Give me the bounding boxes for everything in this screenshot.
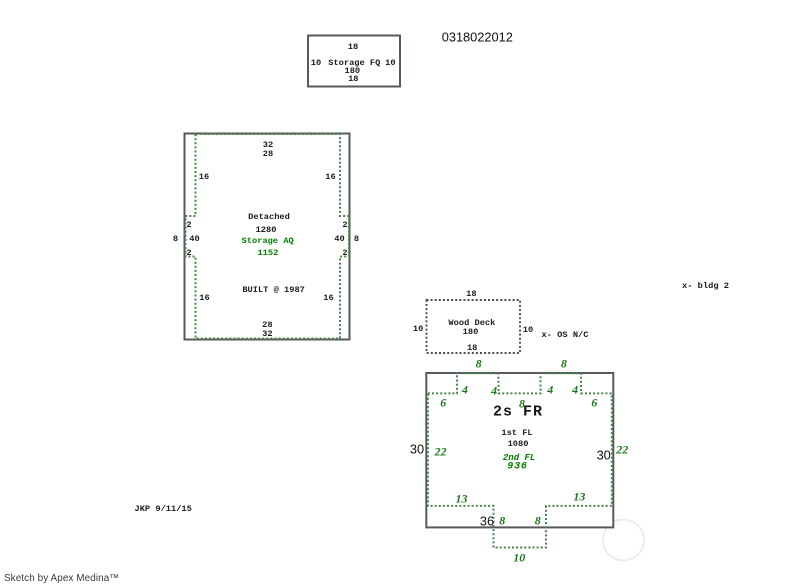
detached dim: 16 upper-right bbox=[325, 172, 335, 182]
deck dim: 10 left bbox=[413, 324, 423, 334]
area polygon: 2nd FL (green dotted with top tabs and bottom protrusion) bbox=[428, 373, 612, 547]
shed name: Storage FQ bbox=[328, 58, 380, 68]
deck name: Wood Deck bbox=[448, 318, 495, 328]
main dim: 4 tab side 3 bbox=[547, 383, 553, 398]
note: x- bldg 2 bbox=[682, 281, 729, 291]
detached dim: 8 outside left bbox=[173, 234, 178, 244]
deck dim: 10 right bbox=[523, 325, 533, 335]
main dim: 30 left bbox=[410, 441, 424, 456]
main dim: 4 tab side 4 bbox=[572, 383, 578, 398]
deck dim: 18 bottom bbox=[467, 343, 477, 353]
main dim: 30 right bbox=[597, 448, 611, 463]
watermark circle bbox=[603, 520, 644, 561]
detached dim: 2 upper-left notch bbox=[186, 220, 191, 230]
main area: 1080 bbox=[508, 439, 529, 449]
detached dim: 2 lower-left notch bbox=[186, 248, 191, 258]
main dim: 6 right bbox=[591, 395, 597, 410]
parcel number label bbox=[442, 30, 513, 45]
area polygon: Storage AQ (green dotted with side notches) bbox=[186, 134, 350, 339]
main dim: 8 top-left tab bbox=[476, 357, 482, 372]
detached dim: 28 top bbox=[263, 149, 273, 159]
detached area: 1280 bbox=[256, 225, 277, 235]
deck outline: Wood Deck (gray dotted) bbox=[427, 300, 521, 353]
main dim: 8 middle bbox=[519, 396, 525, 411]
detached dim: 16 lower-right bbox=[323, 293, 333, 303]
storage name: Storage AQ bbox=[242, 236, 294, 246]
detached dim: 8 outside right bbox=[354, 234, 359, 244]
main dim: 13 left bbox=[456, 491, 468, 506]
main dim: 4 tab side 2 bbox=[491, 383, 497, 398]
main area: 936 bbox=[507, 462, 527, 473]
shed area: 180 bbox=[344, 66, 360, 76]
main dim: 13 right bbox=[573, 489, 585, 504]
detached dim: 32 top bbox=[263, 140, 273, 150]
shed dim: 18 bottom bbox=[348, 74, 358, 84]
building outline: Storage FQ shed bbox=[308, 36, 400, 87]
shed dim: 10 right bbox=[385, 58, 395, 68]
main dim: 8 protrusion left bbox=[499, 513, 505, 528]
detached note: BUILT @ 1987 bbox=[242, 285, 305, 295]
detached dim: 40 left bbox=[189, 234, 199, 244]
deck dim: 18 top bbox=[466, 289, 476, 299]
detached dim: 16 lower-left bbox=[199, 293, 209, 303]
detached dim: 16 upper-left bbox=[199, 172, 209, 182]
building outline: Detached garage (gray solid) bbox=[185, 134, 350, 340]
main dim: 4 tab side 1 bbox=[462, 383, 468, 398]
main label: 2nd FL bbox=[503, 453, 535, 463]
main dim: 22 left bbox=[435, 444, 447, 459]
main dim: 36 bottom bbox=[480, 513, 494, 528]
appraiser initials and date bbox=[135, 504, 192, 514]
main dim: 22 right bbox=[616, 442, 628, 457]
main dim: 8 protrusion right bbox=[535, 513, 541, 528]
footer: Sketch by Apex Medina bbox=[4, 573, 119, 584]
detached dim: 2 upper-right notch bbox=[342, 220, 347, 230]
detached dim: 32 bottom bbox=[262, 329, 272, 339]
main label: 2s FR bbox=[493, 403, 543, 420]
detached dim: 2 lower-right notch bbox=[342, 248, 347, 258]
detached dim: 28 bottom bbox=[262, 320, 272, 330]
detached name bbox=[248, 212, 290, 222]
deck area: 180 bbox=[463, 327, 479, 337]
note: x- OS N/C bbox=[542, 330, 589, 340]
main dim: 8 top-right tab bbox=[561, 357, 567, 372]
detached dim: 40 right bbox=[334, 234, 344, 244]
storage area: 1152 bbox=[257, 248, 278, 258]
building outline: main dwelling 1st FL (gray solid) bbox=[426, 373, 613, 527]
main label: 1st FL bbox=[501, 428, 532, 438]
shed dim: 18 top bbox=[348, 42, 358, 52]
main dim: 6 left bbox=[440, 395, 446, 410]
shed dim: 10 left bbox=[311, 58, 321, 68]
main dim: 10 protrusion bottom bbox=[513, 550, 525, 565]
